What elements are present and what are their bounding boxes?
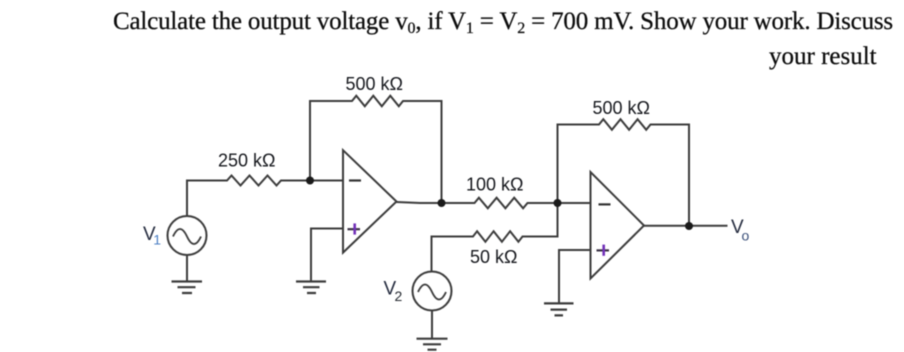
svg-text:500 kΩ: 500 kΩ — [346, 74, 404, 94]
svg-text:o: o — [742, 228, 750, 244]
svg-text:2: 2 — [395, 288, 403, 304]
svg-text:250 kΩ: 250 kΩ — [218, 151, 276, 171]
svg-text:50 kΩ: 50 kΩ — [470, 247, 517, 267]
svg-text:100 kΩ: 100 kΩ — [466, 175, 524, 195]
svg-text:1: 1 — [153, 232, 161, 248]
svg-text:500 kΩ: 500 kΩ — [593, 98, 651, 118]
